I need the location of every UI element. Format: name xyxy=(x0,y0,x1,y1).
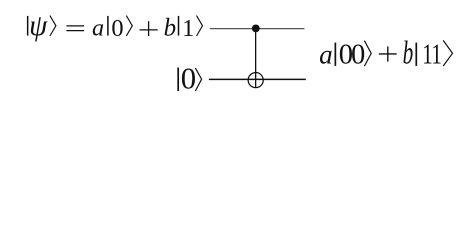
svg-text:1: 1 xyxy=(182,15,194,42)
svg-text:a: a xyxy=(92,14,104,41)
svg-text:b: b xyxy=(403,35,414,70)
svg-text:0: 0 xyxy=(351,40,365,71)
svg-text:0: 0 xyxy=(111,15,123,42)
svg-text:b: b xyxy=(164,14,177,41)
svg-text:1: 1 xyxy=(431,40,441,71)
svg-text:a: a xyxy=(319,39,333,69)
svg-text:0: 0 xyxy=(181,62,196,96)
svg-text:ψ: ψ xyxy=(29,10,48,42)
